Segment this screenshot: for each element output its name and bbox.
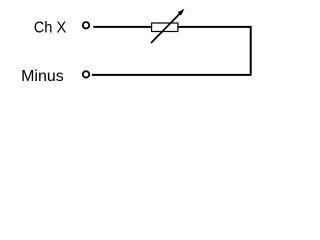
svg-text:Minus: Minus (21, 68, 64, 85)
svg-text:Ch X: Ch X (34, 20, 67, 37)
